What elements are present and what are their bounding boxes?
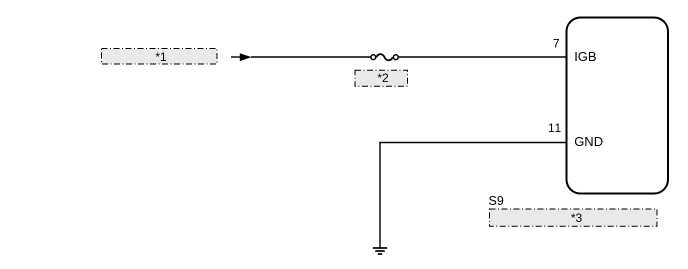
label box *1	[102, 49, 218, 65]
label box *3	[490, 209, 658, 226]
svg-text:*3: *3	[571, 211, 583, 225]
wire: arrow to fuse	[251, 56, 371, 58]
arrow (signal direction)	[231, 53, 252, 61]
svg-text:*1: *1	[155, 50, 167, 64]
svg-text:11: 11	[548, 121, 562, 135]
svg-text:GND: GND	[574, 134, 603, 149]
svg-text:IGB: IGB	[574, 49, 596, 64]
svg-text:S9: S9	[489, 194, 504, 208]
svg-text:7: 7	[553, 36, 560, 50]
wire: ground drop, vertical	[379, 142, 381, 248]
ground symbol	[373, 248, 387, 254]
wire: fuse to pin 7 (IGB)	[399, 56, 567, 58]
svg-text:*2: *2	[377, 71, 389, 85]
fuse F (circle-wave-circle)	[371, 54, 398, 60]
wire: pin 11 (GND) to ground, horizontal	[379, 142, 566, 144]
ECU component box U	[567, 18, 669, 194]
label box *2	[355, 70, 408, 86]
